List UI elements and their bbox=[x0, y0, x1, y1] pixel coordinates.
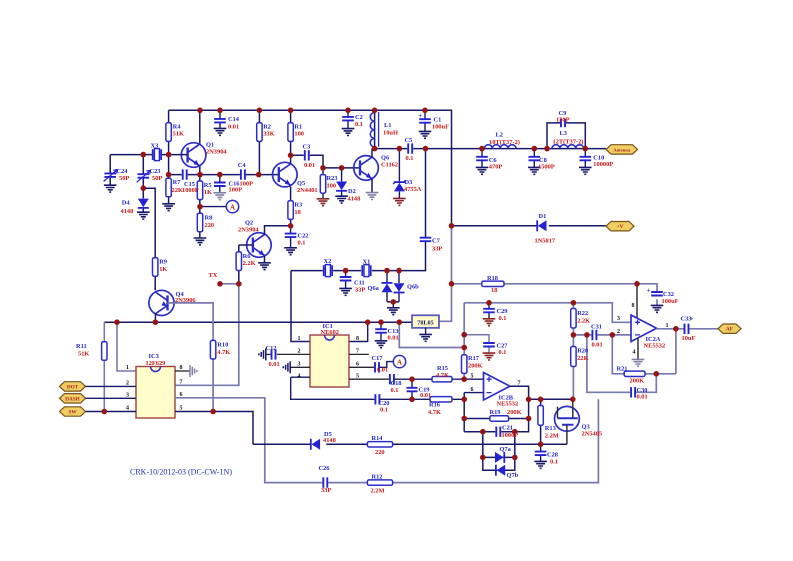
resistor R19 bbox=[490, 416, 509, 421]
wire pin5 line to IC2B + bbox=[394, 378, 483, 380]
svg-text:0.1: 0.1 bbox=[406, 155, 414, 162]
svg-text:0.01: 0.01 bbox=[228, 123, 239, 130]
junction bbox=[544, 146, 550, 152]
svg-text:R15: R15 bbox=[437, 365, 448, 372]
svg-text:22K: 22K bbox=[577, 355, 588, 362]
wire Q6 emitter bbox=[371, 179, 373, 193]
svg-text:100: 100 bbox=[294, 131, 304, 138]
svg-text:L2: L2 bbox=[496, 131, 503, 138]
svg-text:R22: R22 bbox=[577, 310, 588, 317]
wire C32 branch bbox=[637, 284, 657, 305]
ground IC3 pin8 (sideways) bbox=[190, 365, 197, 377]
svg-text:R13: R13 bbox=[545, 425, 556, 432]
resistor R8 bbox=[197, 213, 202, 232]
wire C7 column bbox=[372, 149, 426, 271]
svg-text:3: 3 bbox=[617, 316, 620, 322]
capacitor C18 bbox=[389, 373, 395, 385]
ground C24 bbox=[104, 185, 117, 192]
resistor R21 bbox=[624, 371, 645, 376]
svg-text:1000P: 1000P bbox=[502, 432, 519, 439]
svg-text:Q3: Q3 bbox=[582, 423, 590, 430]
meter A (osc) bbox=[226, 200, 238, 212]
svg-text:R10: R10 bbox=[217, 342, 228, 349]
svg-text:0.1: 0.1 bbox=[550, 458, 558, 465]
svg-text:4.7K: 4.7K bbox=[436, 372, 449, 379]
wire C11 leads bbox=[345, 271, 347, 289]
junction bbox=[210, 409, 216, 415]
svg-text:R11: R11 bbox=[76, 343, 87, 350]
junction bbox=[423, 146, 429, 152]
IC U1 (IC1 NE602) bbox=[310, 335, 349, 387]
svg-text:R4: R4 bbox=[173, 123, 182, 130]
capacitor C9 bbox=[560, 118, 566, 128]
wire IC3 pin8 bbox=[175, 370, 190, 372]
junction bbox=[526, 416, 532, 422]
junction bbox=[197, 204, 203, 210]
ground C12 (sideways) bbox=[259, 348, 266, 360]
svg-text:R18: R18 bbox=[487, 275, 498, 282]
ground Q6 bbox=[366, 193, 379, 200]
wire IC1 pin6 bbox=[349, 366, 375, 368]
junction bbox=[102, 409, 108, 415]
capacitor C5 bbox=[407, 143, 413, 155]
wire RF output line bbox=[375, 148, 606, 150]
svg-text:C1162: C1162 bbox=[381, 162, 398, 169]
junction bbox=[409, 376, 415, 382]
junction bbox=[571, 300, 577, 306]
wire IC3 pin5 TX key line bbox=[175, 412, 253, 445]
wire IC1 pin3 bbox=[290, 366, 310, 368]
wire C23 leads bbox=[142, 155, 144, 189]
svg-text:DOT: DOT bbox=[67, 384, 79, 390]
wire bias rail to IC2A pin3 bbox=[464, 303, 631, 323]
wire Q2 base bbox=[239, 244, 253, 246]
wire C27 branch bbox=[464, 335, 489, 353]
junction bbox=[422, 108, 428, 114]
svg-text:Q7b: Q7b bbox=[507, 472, 519, 479]
svg-text:1000P: 1000P bbox=[182, 187, 199, 194]
junction bbox=[583, 146, 589, 152]
wire C4 to Q5 base bbox=[241, 174, 279, 176]
svg-text:Q5: Q5 bbox=[297, 180, 305, 187]
ground C1 bbox=[419, 131, 432, 138]
junction bbox=[217, 281, 223, 287]
svg-text:IC3: IC3 bbox=[149, 353, 159, 360]
svg-text:0.1: 0.1 bbox=[391, 387, 399, 394]
wire IC1 pin7 stub bbox=[349, 353, 369, 355]
wire IC1 pin5 bbox=[349, 378, 390, 380]
wire C21 line bbox=[464, 419, 528, 432]
ground C13 bbox=[375, 341, 388, 348]
ground C22 bbox=[284, 248, 297, 255]
svg-text:R14: R14 bbox=[372, 435, 384, 442]
svg-text:0.1: 0.1 bbox=[380, 406, 388, 413]
wire C3 line to Q6 base bbox=[291, 155, 360, 168]
ground C14 bbox=[214, 128, 227, 135]
svg-text:100uF: 100uF bbox=[662, 298, 679, 305]
inductor L3 bbox=[552, 145, 584, 149]
capacitor C3 bbox=[304, 150, 310, 162]
svg-text:1: 1 bbox=[666, 323, 669, 329]
svg-text:Q2: Q2 bbox=[245, 219, 253, 226]
connector SW bbox=[60, 407, 86, 416]
junction bbox=[461, 376, 467, 382]
svg-text:R20: R20 bbox=[577, 348, 588, 355]
junction bbox=[288, 153, 294, 159]
svg-text:0.1: 0.1 bbox=[499, 349, 507, 356]
wire Q1 emitter / R5 / R8 column bbox=[199, 166, 201, 238]
crystal X3 bbox=[153, 149, 161, 160]
wire Q1 base line bbox=[143, 154, 187, 156]
wire IC2A pin4 bbox=[637, 338, 639, 359]
ground IC1 pin3 (sideways) bbox=[283, 361, 290, 373]
svg-text:Q6b: Q6b bbox=[407, 283, 419, 290]
junction bbox=[397, 146, 403, 152]
svg-text:7: 7 bbox=[518, 380, 521, 386]
junction bbox=[378, 319, 384, 325]
svg-text:0.01: 0.01 bbox=[592, 341, 603, 348]
wire C6 leads bbox=[481, 149, 483, 168]
svg-text:Antenna: Antenna bbox=[613, 147, 631, 152]
svg-text:2.2K: 2.2K bbox=[243, 260, 256, 267]
wire C30 feedback branch bbox=[587, 335, 656, 392]
capacitor C33 (10uF) bbox=[684, 323, 690, 335]
svg-text:18: 18 bbox=[491, 287, 497, 294]
junction bbox=[217, 172, 223, 178]
svg-text:DASH: DASH bbox=[65, 396, 79, 402]
svg-text:3: 3 bbox=[298, 362, 301, 368]
capacitor C7 bbox=[420, 238, 432, 242]
wire C29 leads bbox=[488, 303, 490, 319]
IC U3 (IC3 12F629) bbox=[136, 367, 175, 419]
svg-text:1N5817: 1N5817 bbox=[535, 237, 556, 244]
svg-text:R6: R6 bbox=[243, 253, 252, 260]
wire IC2B feedback left column bbox=[463, 393, 465, 432]
svg-text:10T(T37-2): 10T(T37-2) bbox=[489, 139, 520, 146]
svg-text:2: 2 bbox=[298, 349, 301, 355]
wire R18 line bbox=[452, 283, 638, 285]
wire R6 column bbox=[238, 245, 240, 284]
svg-text:4: 4 bbox=[126, 406, 129, 412]
svg-text:R2: R2 bbox=[263, 123, 271, 130]
ground IC2A bbox=[632, 359, 645, 366]
wire IC1 pin2 bbox=[277, 353, 310, 355]
junction bbox=[461, 397, 467, 403]
svg-text:R23: R23 bbox=[327, 175, 338, 182]
diode Q7b bbox=[497, 465, 506, 476]
capacitor C4 bbox=[240, 169, 246, 181]
ground C28 bbox=[534, 461, 547, 468]
svg-text:200K: 200K bbox=[630, 377, 645, 384]
svg-text:D4: D4 bbox=[122, 199, 131, 206]
svg-text:X2: X2 bbox=[324, 258, 332, 265]
svg-text:X1: X1 bbox=[363, 258, 371, 265]
svg-text:R8: R8 bbox=[205, 215, 213, 222]
wire R4/R7 column bbox=[168, 110, 170, 203]
wire IC1 pin4 / C20 line bbox=[291, 377, 376, 399]
wire L1 bbox=[374, 110, 376, 148]
junction bbox=[320, 165, 326, 171]
resistor R22 bbox=[571, 309, 576, 329]
wire output node line bbox=[529, 398, 573, 400]
ground C6 bbox=[476, 167, 489, 174]
wire C14 leads bbox=[219, 110, 221, 128]
wire Q5 collector bbox=[290, 155, 292, 164]
svg-text:1K: 1K bbox=[204, 189, 212, 196]
wire C19 leads bbox=[411, 379, 413, 399]
svg-text:8: 8 bbox=[632, 303, 635, 309]
ground C8 bbox=[528, 167, 541, 174]
connector Antenna bbox=[606, 145, 638, 154]
svg-text:C32: C32 bbox=[663, 291, 674, 298]
wire R22/R20 column bbox=[572, 303, 574, 400]
op-amp U2B (IC2B NE5532) bbox=[484, 373, 511, 401]
wire IC3 pin6 sidetone loop bbox=[175, 398, 598, 483]
resistor R5 bbox=[197, 181, 202, 200]
wire Q7b line bbox=[483, 457, 515, 470]
svg-text:78L05: 78L05 bbox=[417, 320, 434, 327]
svg-text:100P: 100P bbox=[229, 187, 243, 194]
svg-text:1500P: 1500P bbox=[538, 163, 555, 170]
svg-text:4.7K: 4.7K bbox=[428, 409, 441, 416]
wire IC3 pin7 route bbox=[175, 284, 239, 386]
junction bbox=[365, 319, 371, 325]
svg-text:7: 7 bbox=[356, 349, 359, 355]
svg-text:4148: 4148 bbox=[323, 437, 336, 444]
svg-text:R1: R1 bbox=[294, 123, 302, 130]
ground R7 bbox=[162, 204, 175, 211]
resistor R3 bbox=[288, 201, 293, 220]
svg-text:33P: 33P bbox=[355, 287, 365, 294]
svg-text:NE602: NE602 bbox=[321, 329, 339, 336]
ground C11 bbox=[339, 288, 352, 295]
junction bbox=[141, 152, 147, 158]
junction bbox=[197, 172, 203, 178]
junction bbox=[449, 223, 455, 229]
svg-text:18: 18 bbox=[294, 209, 300, 216]
svg-text:+V: +V bbox=[617, 224, 624, 230]
svg-text:R7: R7 bbox=[173, 179, 182, 186]
regulator 78L05 bbox=[412, 315, 439, 328]
resistor R17 bbox=[462, 355, 467, 374]
svg-text:Q6a: Q6a bbox=[368, 285, 380, 292]
wire TX mute line bbox=[253, 443, 567, 445]
capacitor C27 bbox=[483, 343, 495, 347]
capacitor C30 bbox=[630, 387, 636, 399]
svg-text:10000P: 10000P bbox=[593, 161, 613, 168]
svg-text:2N3904: 2N3904 bbox=[206, 149, 227, 156]
wire R1 column bbox=[290, 110, 292, 155]
junction bbox=[153, 319, 159, 325]
ground C16 bbox=[214, 193, 227, 200]
svg-text:R9: R9 bbox=[159, 259, 167, 266]
svg-text:6: 6 bbox=[180, 392, 183, 398]
wire C24 leads bbox=[109, 155, 111, 185]
wire +V top rail bbox=[169, 110, 452, 226]
svg-text:4.7K: 4.7K bbox=[217, 349, 230, 356]
transistor Q3 (JFET mute) bbox=[555, 406, 580, 431]
svg-text:R12: R12 bbox=[372, 473, 383, 480]
svg-text:2N3906: 2N3906 bbox=[175, 297, 196, 304]
junction bbox=[512, 429, 518, 435]
diode D4 bbox=[138, 199, 149, 208]
wire IC2B output bbox=[510, 386, 529, 418]
junction bbox=[532, 146, 538, 152]
inductor L2 bbox=[484, 145, 516, 149]
ground Q2 bbox=[258, 263, 271, 270]
transistor Q5 bbox=[273, 162, 298, 187]
junction bbox=[409, 397, 415, 403]
svg-text:1: 1 bbox=[298, 336, 301, 342]
ground D2 bbox=[335, 196, 348, 203]
resistor R10 bbox=[210, 340, 215, 359]
wire C2 leads bbox=[347, 110, 349, 128]
transistor Q1 bbox=[181, 143, 206, 168]
svg-text:L3: L3 bbox=[560, 130, 567, 137]
resistor R15 bbox=[432, 377, 452, 382]
wire R19 line bbox=[464, 418, 528, 420]
wire IC2B pin6 input bbox=[464, 392, 483, 394]
resistor R9 bbox=[153, 258, 158, 277]
wire Q2 emitter bbox=[264, 255, 266, 262]
svg-text:10uF: 10uF bbox=[682, 335, 696, 342]
svg-text:2: 2 bbox=[126, 381, 129, 387]
svg-text:100uF: 100uF bbox=[432, 124, 449, 131]
resistor R7 bbox=[166, 178, 171, 197]
svg-text:6: 6 bbox=[356, 362, 359, 368]
svg-text:AF: AF bbox=[726, 327, 733, 333]
wire AF output line bbox=[657, 328, 719, 330]
wire Q7a line bbox=[483, 456, 515, 458]
svg-text:33P: 33P bbox=[321, 487, 331, 494]
svg-text:1: 1 bbox=[126, 365, 129, 371]
junction bbox=[288, 223, 294, 229]
junction bbox=[538, 442, 544, 448]
wire C17 to meter bbox=[379, 362, 393, 368]
junction bbox=[461, 416, 467, 422]
ground C32 bbox=[651, 305, 664, 312]
wire R17 column bbox=[463, 303, 465, 379]
junction bbox=[479, 146, 485, 152]
svg-text:R3: R3 bbox=[294, 202, 302, 209]
svg-text:200K: 200K bbox=[468, 362, 483, 369]
svg-text:4755A: 4755A bbox=[404, 186, 422, 193]
wire Q6 collector bbox=[371, 149, 373, 158]
wire D4 leads bbox=[142, 188, 144, 212]
junction bbox=[396, 268, 402, 274]
svg-text:C17: C17 bbox=[372, 355, 384, 362]
svg-text:6: 6 bbox=[471, 387, 474, 393]
junction bbox=[236, 281, 242, 287]
svg-text:+: + bbox=[647, 287, 651, 295]
svg-text:0.01: 0.01 bbox=[269, 361, 280, 368]
svg-text:2N5485: 2N5485 bbox=[582, 430, 603, 437]
svg-text:50P: 50P bbox=[119, 175, 129, 182]
svg-text:0.01: 0.01 bbox=[637, 394, 648, 401]
junction bbox=[372, 146, 378, 152]
svg-text:5: 5 bbox=[180, 406, 183, 412]
svg-text:12F629: 12F629 bbox=[146, 360, 166, 367]
svg-text:C1: C1 bbox=[434, 116, 442, 123]
junction bbox=[256, 172, 262, 178]
resistor R20 bbox=[571, 347, 576, 367]
junction bbox=[397, 319, 403, 325]
junction bbox=[217, 108, 223, 114]
junction bbox=[391, 299, 397, 305]
resistor R2 bbox=[257, 123, 262, 142]
wire DOT to pin2 bbox=[86, 385, 137, 387]
crystal X1 bbox=[362, 265, 370, 276]
wire TX stub bbox=[220, 283, 239, 285]
junction bbox=[449, 281, 455, 287]
wire R23 leads bbox=[322, 168, 324, 199]
svg-text:C7: C7 bbox=[432, 238, 441, 245]
svg-text:0.1: 0.1 bbox=[499, 315, 507, 322]
wire C16 leads bbox=[219, 175, 221, 193]
meter A (product) bbox=[393, 355, 405, 367]
svg-text:2: 2 bbox=[617, 329, 620, 335]
transistor Q6 bbox=[354, 156, 379, 181]
wire +5V jog to bias column bbox=[399, 322, 464, 347]
svg-text:51K: 51K bbox=[173, 131, 184, 138]
capacitor C15 bbox=[182, 169, 188, 181]
svg-text:C26: C26 bbox=[319, 465, 331, 472]
svg-text:10uH: 10uH bbox=[383, 130, 398, 137]
junction bbox=[384, 268, 390, 274]
capacitor C21 bbox=[495, 426, 501, 438]
wire varactor node to R9/Q4 bbox=[143, 188, 155, 290]
wire C22 leads bbox=[290, 226, 292, 248]
svg-text:51K: 51K bbox=[78, 350, 89, 357]
svg-text:NE5532: NE5532 bbox=[644, 343, 666, 350]
junction bbox=[654, 371, 660, 377]
wire C10 leads bbox=[584, 149, 586, 168]
wire Q1 emitter line bbox=[169, 174, 241, 176]
svg-text:+: + bbox=[418, 112, 422, 120]
wire IC3 pin1 bbox=[117, 322, 136, 371]
junction bbox=[197, 108, 203, 114]
junction bbox=[288, 108, 294, 114]
resistor R1 bbox=[288, 123, 293, 142]
svg-text:C3: C3 bbox=[303, 144, 311, 151]
svg-text:L1: L1 bbox=[384, 122, 391, 129]
svg-text:C28: C28 bbox=[547, 451, 558, 458]
connector DASH bbox=[60, 394, 86, 403]
wire Q4 emitter bbox=[154, 313, 156, 322]
svg-text:C33: C33 bbox=[681, 315, 692, 322]
capacitor C32 (100uF) bbox=[651, 292, 663, 296]
junction bbox=[570, 397, 576, 403]
wire DASH to pin3 bbox=[86, 397, 137, 399]
svg-text:0.01: 0.01 bbox=[388, 334, 399, 341]
ground D3 bbox=[393, 198, 406, 205]
svg-text:8: 8 bbox=[356, 336, 359, 342]
capacitor C20 bbox=[374, 394, 380, 406]
ground C29 bbox=[483, 319, 496, 326]
ground D4 bbox=[137, 212, 150, 219]
ground C2 bbox=[342, 129, 355, 136]
ground R23 bbox=[317, 199, 330, 206]
svg-text:R5: R5 bbox=[204, 182, 212, 189]
svg-text:C4: C4 bbox=[238, 162, 247, 169]
wire R2 column bbox=[258, 110, 260, 174]
resistor R18 bbox=[482, 281, 504, 286]
svg-text:12T(T37-2): 12T(T37-2) bbox=[553, 139, 584, 146]
svg-text:4: 4 bbox=[633, 349, 636, 355]
svg-text:220: 220 bbox=[205, 222, 215, 229]
svg-text:4148: 4148 bbox=[121, 208, 134, 215]
svg-text:200K: 200K bbox=[507, 409, 522, 416]
